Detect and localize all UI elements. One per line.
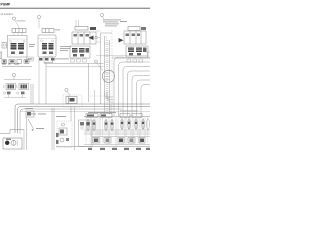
- pump P1 inner marks: [11, 52, 24, 55]
- spool group A: [87, 119, 114, 131]
- U3 under-row symbols: [127, 57, 143, 62]
- valve V1 core: [42, 43, 54, 50]
- tiny caption: [2, 64, 19, 65]
- bundle corner turns: [105, 93, 114, 102]
- detail circle: [102, 70, 114, 82]
- center-bottom box: [79, 120, 93, 147]
- bottom-left label: [36, 127, 44, 130]
- motor M1 balloon: [65, 88, 68, 91]
- block U3 lower block: [126, 46, 148, 57]
- corner small valve: [26, 111, 34, 117]
- block U3 inner marks: [126, 34, 141, 37]
- long verticals bottom pair: [52, 107, 75, 150]
- pump top marks: [6, 139, 11, 140]
- balloon 1: [12, 17, 15, 20]
- manifold bottom stubs: [88, 148, 150, 150]
- mid line 2: [46, 66, 104, 68]
- bus line 3: [20, 109, 122, 134]
- tank verticals: [23, 130, 25, 151]
- balloon 2: [37, 15, 40, 18]
- valve V1 top box: [42, 29, 54, 33]
- block U2 top box: [75, 27, 88, 31]
- manifold inner verticals: [91, 117, 140, 147]
- note text right: [120, 20, 127, 23]
- block U2 top dark: [90, 27, 96, 30]
- pump side ticks: [17, 140, 19, 146]
- vertical from mid box: [45, 63, 47, 105]
- line under ports: [2, 66, 32, 68]
- frame top: [101, 32, 113, 34]
- manifold fine comb: [86, 117, 148, 146]
- manifold top rail: [84, 116, 150, 118]
- block U3 lower cores: [128, 48, 142, 53]
- circle ticks: [104, 73, 110, 80]
- bus caption text: [30, 113, 46, 116]
- motor M1 core: [70, 98, 75, 102]
- text between assemblies: [29, 43, 35, 46]
- pump P1 top box: [12, 29, 26, 33]
- valve V1 label: [55, 29, 60, 32]
- bus line 2: [18, 107, 151, 134]
- pump P1 links: [14, 33, 22, 36]
- dashed box valve: [59, 128, 67, 135]
- manifold label text: [88, 111, 116, 114]
- bottom dashed box label: [56, 115, 66, 118]
- hose bundle: [105, 36, 110, 114]
- valve V1 body: [38, 35, 56, 57]
- pump circle open: [11, 140, 16, 145]
- U3 lower double lines: [112, 56, 124, 58]
- pump P1 body: [8, 36, 28, 58]
- pilot valve V0: [2, 43, 7, 49]
- cluster A spring: [3, 85, 5, 88]
- mid line 1: [44, 62, 104, 64]
- bundle extra drops: [109, 104, 111, 114]
- pump P1 core: [11, 43, 25, 50]
- pump P1 bottom symbols: [2, 60, 29, 64]
- pump inner tick: [13, 140, 15, 145]
- left edge element: [0, 52, 2, 59]
- cluster B spring: [16, 85, 18, 88]
- manifold mid rails: [84, 130, 150, 137]
- port label box: [27, 57, 34, 61]
- balloon mid: [95, 60, 98, 63]
- block U2 body: [72, 32, 96, 44]
- bottom-left step pipe: [0, 130, 24, 134]
- drop to pump: [26, 117, 28, 150]
- manifold lower boxes: [93, 138, 145, 144]
- vertical line a: [38, 57, 40, 104]
- block U3 top box: [128, 27, 140, 31]
- frame left vertical: [100, 33, 102, 104]
- block U3 top mark: [141, 27, 146, 30]
- motor dashed box: [63, 95, 82, 107]
- corner valve label: [25, 107, 33, 110]
- block U3 arrow: [119, 38, 124, 43]
- motor drop line: [70, 107, 72, 121]
- dashed box marks: [66, 138, 69, 141]
- pump circle dark: [5, 141, 9, 145]
- balloon 3: [100, 13, 103, 16]
- mid small box: [44, 57, 53, 63]
- manifold mid rail 2: [84, 131, 150, 133]
- note text block: [103, 20, 121, 27]
- manifold bottom rails: [84, 144, 150, 146]
- vertical pair from bank: [30, 84, 32, 104]
- center-bottom marks: [80, 122, 90, 126]
- valve V1 bottom symbols: [39, 58, 55, 61]
- vertical line d: [94, 90, 96, 114]
- manifold label text 2: [120, 110, 138, 113]
- block U2 lower cores: [72, 48, 85, 53]
- block U2 inner marks: [74, 34, 90, 37]
- dashed line right: [90, 95, 112, 97]
- nested corner wires: [114, 58, 150, 117]
- dashed box circle: [60, 138, 64, 142]
- block U2 stubs: [75, 20, 77, 27]
- block U3 dashed boundary: [111, 30, 113, 118]
- valve V1 inner marks: [43, 52, 54, 55]
- bottom dashed box: [57, 121, 72, 148]
- bank lower marks: [7, 92, 25, 95]
- U2 under-row symbols: [71, 58, 87, 62]
- vertical line c: [88, 63, 90, 102]
- bus line 4: [20, 111, 150, 113]
- block U3 body: [124, 31, 146, 44]
- left valve bank top line: [4, 79, 31, 81]
- block U2 lower block: [70, 46, 90, 58]
- svg-text:PUMP: PUMP: [1, 2, 12, 6]
- left valve bank cluster A: [6, 84, 16, 90]
- arrow leader: [28, 119, 34, 129]
- hose rungs: [104, 44, 110, 98]
- dashed box balloon: [62, 123, 65, 126]
- header rule: [0, 7, 150, 9]
- small symbols left of manifold: [56, 133, 59, 144]
- text block left of U2: [60, 46, 71, 51]
- right edge line: [147, 52, 149, 58]
- spool group B: [121, 119, 150, 130]
- mid text: [54, 58, 69, 61]
- manifold header boxes: [86, 114, 142, 118]
- block U2 arrow: [89, 36, 94, 41]
- svg-text:oil solution: oil solution: [1, 12, 14, 16]
- crossing line: [96, 55, 148, 57]
- left valve bank cluster B: [19, 84, 29, 90]
- bus line 1: [15, 104, 150, 133]
- tank pump unit: [3, 138, 22, 149]
- balloon left mid: [12, 73, 15, 76]
- bank stub lines: [4, 94, 26, 97]
- motor M1 box: [66, 97, 77, 104]
